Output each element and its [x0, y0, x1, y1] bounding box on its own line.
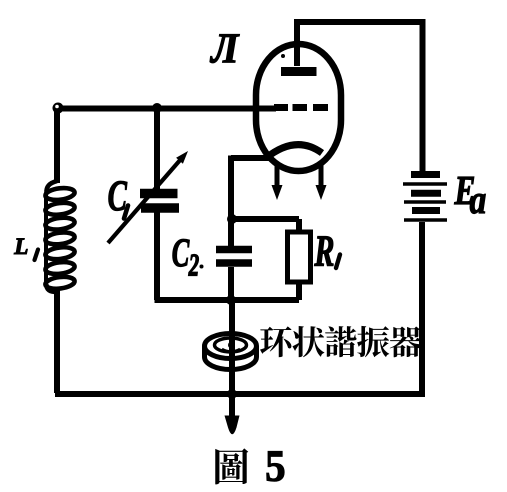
- wire C2 to node: [228, 267, 234, 300]
- wire bottom node horizontal: [155, 297, 300, 303]
- junction node at bottom net: [226, 295, 236, 305]
- svg-text:2: 2: [188, 247, 199, 282]
- inductor L1 coil: [45, 181, 76, 292]
- label resonator char huan 环: [260, 326, 292, 357]
- wire left vertical upper: [54, 106, 60, 184]
- tube speckle dot: [281, 54, 285, 58]
- label ring resonator text and figure character: [215, 326, 421, 484]
- svg-text:R: R: [314, 227, 335, 276]
- svg-text:Л: Л: [209, 24, 240, 72]
- wire right vertical lower: [419, 222, 425, 393]
- wire R1 top lead: [296, 219, 302, 232]
- svg-text:5: 5: [265, 442, 285, 491]
- wire left vertical lower: [54, 290, 60, 393]
- wire bottom rail: [55, 391, 425, 397]
- label L1 subscript 1: [35, 250, 39, 261]
- wire cathode horizontal: [231, 155, 273, 161]
- tube filament arrow right: [316, 164, 327, 200]
- resistor R1: [288, 232, 311, 282]
- label C2 period dot: [200, 265, 204, 269]
- vacuum tube U1 envelope: [256, 44, 341, 171]
- wire C1 branch upper: [154, 108, 160, 190]
- capacitor C1 variable arrow: [108, 151, 188, 243]
- wire cathode vertical to C2: [228, 156, 234, 247]
- wire plate lead vertical: [294, 19, 300, 66]
- tube grid dashes: [274, 104, 328, 111]
- label figure character tu 圖: [215, 448, 248, 484]
- wire resonator through to arrow: [229, 300, 235, 416]
- wire R1 top horizontal: [231, 216, 299, 222]
- label resonator char qi 器: [390, 326, 422, 357]
- ring resonator body: [205, 334, 257, 370]
- wire grid top-left horizontal: [55, 106, 276, 112]
- wire R1 bottom lead: [296, 282, 302, 300]
- terminal at left corner: [53, 103, 64, 114]
- battery Ea bars: [403, 175, 447, 221]
- wire plate top horizontal: [296, 19, 426, 25]
- tube anode bar: [281, 67, 317, 76]
- capacitor C2 plates: [216, 250, 252, 264]
- tube filament arrow left: [272, 166, 283, 200]
- label C1 subscript 1: [124, 206, 128, 219]
- wire C1 branch lower: [154, 211, 160, 300]
- label resonator char zhen 振: [357, 326, 389, 357]
- label resonator char xie 諧: [325, 326, 356, 357]
- junction node on bottom rail: [227, 389, 237, 399]
- resonator center dot: [228, 342, 235, 349]
- svg-text:L: L: [13, 234, 28, 260]
- label resonator char zhuang 状: [292, 326, 324, 357]
- output arrow: [225, 416, 240, 435]
- svg-text:C: C: [172, 232, 190, 276]
- junction node at C1 tap: [152, 103, 162, 113]
- junction node at cathode/R1: [227, 214, 237, 224]
- tube filament arc: [266, 145, 322, 158]
- capacitor C1 plates: [140, 194, 179, 209]
- svg-text:a: a: [470, 178, 487, 223]
- label R1 subscript 1: [336, 255, 340, 269]
- wire right vertical upper: [420, 22, 426, 171]
